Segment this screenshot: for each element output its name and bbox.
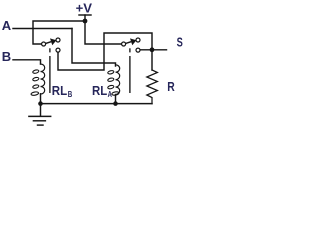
- junction dot RLB bottom: [38, 101, 43, 106]
- RLB coil bottom stub: [40, 94, 42, 104]
- ground stem: [40, 104, 42, 117]
- wire A horizontal: [13, 28, 72, 30]
- junction dot RLA bottom: [113, 101, 118, 106]
- wire +V down to switch 2 common: [85, 21, 121, 44]
- wire +V to left vertical: [33, 21, 85, 44]
- junction dot +V: [83, 19, 88, 24]
- coil RLA crossover loops: [107, 70, 119, 96]
- svg-text:A: A: [108, 89, 112, 99]
- coil RLB turns: [41, 64, 45, 94]
- coil RLB crossover loops: [31, 69, 39, 95]
- resistor R zigzag: [147, 70, 158, 104]
- wire A vertical drop to RLA feed: [72, 29, 116, 67]
- switch 2 (relay contact, pole arm + arrow): [122, 38, 140, 52]
- svg-text:RL: RL: [92, 84, 108, 98]
- mechanical link switch2 dash: [129, 48, 131, 52]
- coil RLA turns: [116, 65, 120, 95]
- svg-text:RL: RL: [52, 84, 68, 98]
- wire switch1 lower throw to node S: [58, 33, 152, 70]
- svg-text:B: B: [2, 49, 11, 64]
- ground bar 3: [38, 124, 44, 126]
- mechanical link switch1 dash: [49, 48, 51, 52]
- +V bar: [79, 14, 91, 16]
- wire switch2 lower throw to S terminal: [140, 49, 166, 51]
- mechanical link switch2 rod: [129, 56, 131, 93]
- switch2 arrowhead: [130, 38, 136, 45]
- ground bar 1: [29, 115, 51, 117]
- ground bar 2: [33, 120, 45, 122]
- mechanical link switch1 rod: [49, 56, 51, 93]
- switch1 arrowhead: [50, 38, 56, 45]
- wire node S down to resistor: [151, 50, 153, 70]
- bottom rail: [41, 103, 153, 105]
- junction dot node S: [150, 47, 155, 52]
- +V stub: [84, 15, 86, 21]
- wire B to RLB coil: [13, 60, 41, 64]
- switch 1 (relay contact, pole arm + arrow): [42, 38, 60, 52]
- svg-text:A: A: [2, 18, 12, 33]
- svg-text:B: B: [68, 89, 73, 99]
- svg-text:S: S: [177, 36, 183, 50]
- svg-text:+V: +V: [76, 0, 93, 15]
- svg-text:R: R: [167, 80, 175, 94]
- RLA coil bottom stub: [115, 95, 117, 104]
